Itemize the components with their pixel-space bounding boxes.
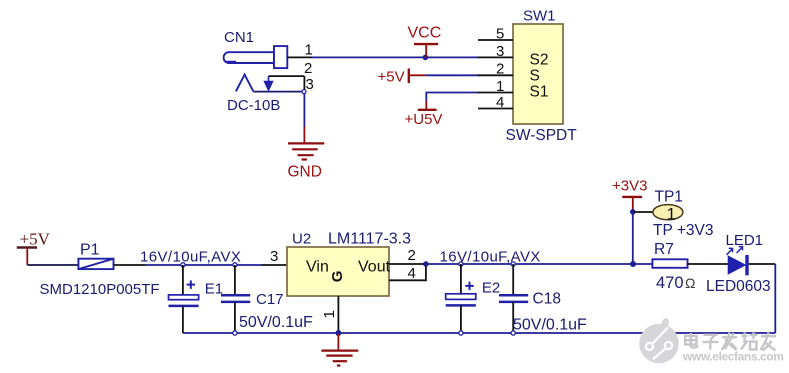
capacitor E1 [182,265,184,295]
junction circle C18 top [511,262,515,266]
svg-text:C17: C17 [256,291,284,308]
pin 3 stub [478,56,513,58]
wire CN1.1 to SW1.3 [312,56,479,58]
bottom rail [183,332,775,334]
wire SW1.1 to +U5V [426,93,479,102]
svg-text:2: 2 [496,61,504,78]
svg-text:2: 2 [408,247,416,264]
svg-text:Ω: Ω [685,275,695,291]
svg-text:+5V: +5V [20,230,51,249]
svg-text:SW1: SW1 [523,8,556,25]
U2 pin2 stub [389,263,426,265]
U2 pin3 stub [261,264,287,266]
svg-text:VCC: VCC [408,25,442,42]
svg-text:50V/0.1uF: 50V/0.1uF [239,314,313,331]
wire to P1 [27,264,77,266]
U2 pin4 stub [389,264,426,280]
resistor R7 [652,259,687,268]
capacitor C18 [512,264,514,295]
junction circle E2 top [459,262,463,266]
svg-text:3: 3 [496,43,504,60]
junction circle E1 top [181,263,185,267]
capacitor E2 [460,264,462,294]
svg-text:Vin: Vin [306,259,329,276]
svg-text:+3V3: +3V3 [612,178,647,195]
pin 2-3 tie [303,76,305,90]
svg-text:+5V: +5V [378,68,405,85]
svg-text:2: 2 [304,60,312,77]
junction dot [335,330,341,336]
ground under U2 [321,333,358,366]
svg-text:E1: E1 [205,281,223,298]
fuse P1 [78,259,113,269]
wire U2 out rail [426,263,653,265]
watermark chinese text [686,334,777,352]
pin 5 stub [478,39,513,41]
svg-text:R7: R7 [654,241,674,258]
svg-text:SW-SPDT: SW-SPDT [506,127,578,144]
DC jack arrow [265,76,273,90]
wire +3V3 down to rail [632,212,634,264]
svg-text:E2: E2 [482,280,500,297]
power +U5V [418,101,437,110]
svg-text:www.elecfans.com: www.elecfans.com [682,350,784,364]
svg-text:P1: P1 [80,242,100,259]
power VCC [414,44,438,57]
junction circle [302,90,306,94]
svg-text:16V/10uF,AVX: 16V/10uF,AVX [140,249,241,266]
svg-text:4: 4 [496,94,504,111]
junction circle C18 bottom [511,331,515,335]
svg-text:LM1117-3.3: LM1117-3.3 [328,230,411,247]
svg-text:S: S [530,68,540,85]
svg-text:TP1: TP1 [655,189,683,206]
svg-text:3: 3 [270,248,278,265]
LED cathode stub [749,263,776,265]
svg-text:5: 5 [496,26,504,43]
svg-text:G: G [329,271,346,283]
svg-text:1: 1 [321,310,338,318]
junction circle C17 top [233,263,237,267]
LED LED1 [728,256,745,274]
wire P1 to U2.3 [145,264,261,266]
DC jack lever [253,91,304,93]
svg-text:LED1: LED1 [726,232,764,249]
svg-text:SMD1210P005TF: SMD1210P005TF [40,281,160,298]
ground GND [288,127,324,160]
wire R7 to LED [688,263,729,265]
junction circle C17 bottom [233,331,237,335]
svg-text:C18: C18 [533,291,561,308]
switch SW1 body [513,24,563,124]
LED arrows [727,247,743,255]
svg-text:S2: S2 [530,52,549,69]
svg-text:1: 1 [667,204,676,223]
svg-text:Vout: Vout [358,259,391,276]
regulator U2 body [287,247,389,296]
svg-text:1: 1 [305,42,313,59]
svg-text:S1: S1 [530,84,549,101]
svg-text:3: 3 [306,76,314,93]
junction [423,55,429,61]
junction [423,261,429,267]
pin 1 stub [287,56,312,58]
pin 4 stub [478,108,513,110]
svg-text:LED0603: LED0603 [706,278,771,295]
pin 2 line [269,75,305,77]
junction dot [630,261,636,267]
wire to ground [303,94,305,127]
wire right down [774,264,776,333]
svg-text:DC-10B: DC-10B [227,97,280,114]
pin 1 stub [478,92,513,94]
svg-text:50V/0.1uF: 50V/0.1uF [513,317,587,334]
svg-text:CN1: CN1 [224,29,254,46]
wire +5V to SW1.2 [425,74,479,76]
test point TP1 [633,211,653,213]
junction circle E2 bottom [459,331,463,335]
U2 pin1 lead [337,296,339,332]
svg-text:TP +3V3: TP +3V3 [653,222,713,239]
watermark logo [639,318,679,363]
junction dot [630,209,636,215]
svg-text:16V/10uF,AVX: 16V/10uF,AVX [440,249,541,266]
svg-text:U2: U2 [292,230,311,247]
DC jack switch contact (caret) [236,75,254,92]
svg-text:470: 470 [656,274,684,292]
connector CN1 [224,46,288,68]
svg-text:1: 1 [496,78,504,95]
capacitor C17 [234,265,236,295]
P1 right stub [114,264,145,266]
svg-text:+U5V: +U5V [405,111,443,128]
pin 2 stub [478,74,513,76]
svg-text:GND: GND [288,164,322,181]
